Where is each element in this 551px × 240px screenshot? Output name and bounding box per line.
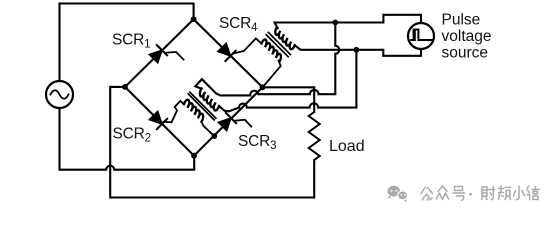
node right vertex	[260, 84, 266, 90]
node T2 secondary tap on SCR3 edge	[211, 133, 217, 139]
wire left vertex to bottom rail to load bottom	[110, 87, 314, 198]
wire bridge edge top-right (SCR4 branch)	[194, 19, 263, 87]
svg-text:Pulse: Pulse	[442, 12, 481, 29]
transformer T1 secondary winding	[262, 39, 281, 61]
svg-text:SCR1: SCR1	[112, 32, 150, 51]
wire T2 secondary to node on SCR3 anode edge	[201, 122, 214, 137]
watermark text (drawn glyphs)	[421, 186, 539, 200]
wire bridge edge bottom-right (SCR3 branch)	[194, 87, 263, 155]
transformer T1 core	[268, 33, 290, 55]
svg-text:SCR2: SCR2	[113, 126, 151, 145]
svg-text:source: source	[442, 45, 489, 62]
thyristor SCR3	[218, 113, 251, 131]
wire T1 primary bottom to pulse source bottom terminal	[295, 45, 421, 56]
wire AC bottom return to bridge bottom vertex	[60, 108, 195, 170]
node top vertex	[191, 16, 197, 22]
wire T2 primary top to pulse source (crosses SCR3 edge and load wire with hops)	[195, 23, 339, 96]
wire bridge edge top-left (SCR1 branch)	[125, 19, 194, 87]
ac source V1	[46, 81, 73, 108]
transformer T2 primary winding	[200, 89, 219, 111]
resistor Load	[309, 112, 320, 160]
watermark wechat icon	[387, 186, 408, 202]
pulse voltage source circle	[408, 23, 434, 49]
node bottom vertex	[191, 153, 197, 159]
thyristor SCR1	[149, 45, 183, 63]
wire SCR2 gate to transformer T2 secondary	[164, 101, 185, 122]
wire top from AC source to bridge top	[60, 4, 194, 82]
transformer T2 secondary winding	[184, 100, 203, 122]
wire load top from bridge right vertex	[263, 87, 315, 112]
thyristor SCR4	[218, 43, 236, 61]
wire T1 primary top to pulse source top terminal	[275, 15, 421, 28]
node pulse bus top	[332, 20, 338, 26]
svg-text:Load: Load	[329, 138, 365, 155]
transformer T2 core	[190, 92, 216, 118]
svg-text:voltage: voltage	[442, 28, 492, 45]
transformer T1 primary winding	[275, 27, 294, 49]
wire T1 secondary to bridge right vertex (SCR4 cathode)	[263, 61, 281, 88]
node pulse bus bottom	[354, 47, 360, 53]
node left vertex	[122, 84, 128, 90]
thyristor SCR2	[149, 111, 167, 129]
svg-text:SCR4: SCR4	[219, 15, 258, 34]
wire bridge edge bottom-left (SCR2 branch)	[125, 87, 194, 156]
wire SCR4 gate to transformer T1 secondary	[233, 38, 261, 53]
pulse waveform glyph	[411, 30, 431, 41]
wire T2 primary bottom to pulse source (crosses SCR3 edge and load wire with hops)	[219, 50, 356, 112]
svg-text:SCR3: SCR3	[238, 133, 276, 152]
